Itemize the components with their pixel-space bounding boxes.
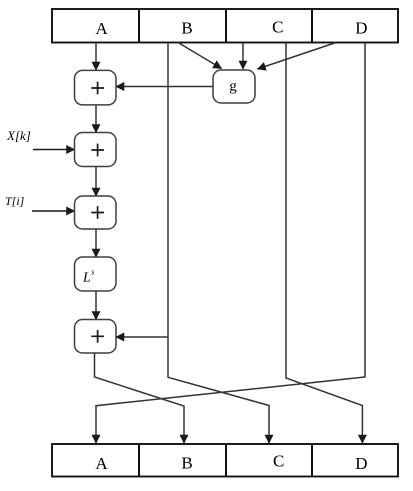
- adder U4 (+): [75, 320, 117, 354]
- svg-text:D: D: [355, 19, 367, 38]
- wire C to g: [242, 43, 244, 70]
- wire adder2 to adder3: [95, 167, 97, 197]
- svg-text:X[k]: X[k]: [6, 128, 31, 143]
- svg-text:D: D: [355, 454, 367, 473]
- wire A to adder 1: [95, 43, 97, 71]
- adder U2 (+): [75, 133, 117, 167]
- svg-text:g: g: [229, 79, 237, 95]
- wire C long vertical, diagonal to new D, drop arrow: [286, 43, 362, 444]
- divider A|B: [138, 9, 140, 43]
- divider C|D: [311, 9, 313, 43]
- adder U1 (+): [75, 70, 117, 105]
- adder U3 (+): [75, 196, 117, 229]
- register box bottom (A B C D): [52, 444, 398, 477]
- svg-text:B: B: [181, 19, 192, 38]
- shifter box L^s: [75, 257, 117, 291]
- svg-text:A: A: [95, 454, 108, 473]
- svg-text:L: L: [82, 271, 91, 286]
- wire shifter to adder4: [95, 291, 97, 320]
- svg-text:B: B: [181, 454, 192, 473]
- svg-text:C: C: [273, 451, 284, 470]
- wire D long vertical, diagonal to new A, drop arrow: [96, 43, 365, 444]
- divider B|C bottom: [225, 444, 227, 477]
- wire T[i] input: [32, 210, 75, 212]
- divider C|D bottom: [311, 444, 313, 477]
- wire X[k] input: [33, 149, 75, 151]
- function box g: [213, 70, 255, 103]
- wire adder3 to shifter: [95, 229, 97, 257]
- wire adder4 output, diagonal to new B, drop arrow: [95, 353, 185, 443]
- svg-text:T[i]: T[i]: [5, 194, 25, 208]
- svg-text:s: s: [91, 268, 94, 277]
- wire adder1 to adder2: [95, 105, 97, 133]
- wire g to adder 1: [116, 86, 213, 88]
- svg-text:C: C: [272, 17, 283, 36]
- wire B long vertical, then diagonal to new C, drop arrow: [168, 43, 269, 444]
- divider B|C: [225, 9, 227, 43]
- svg-text:A: A: [96, 19, 109, 38]
- wire B to g (diagonal): [178, 43, 222, 69]
- wire B branch into adder4: [116, 336, 168, 338]
- register box top (A B C D): [52, 9, 398, 43]
- wire D to g (diagonal): [258, 43, 337, 70]
- divider A|B bottom: [138, 444, 140, 477]
